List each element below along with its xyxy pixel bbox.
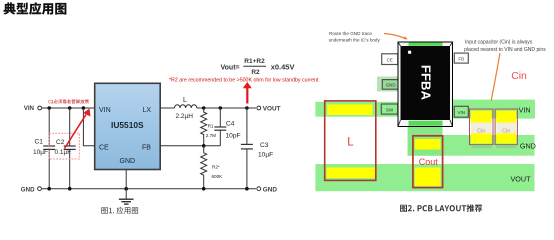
- node junction R2 bottom: [202, 187, 206, 191]
- svg-text:FB: FB: [142, 145, 151, 152]
- IC name FFBA: [419, 65, 434, 101]
- ground: [119, 199, 134, 204]
- pad FB: [454, 53, 468, 63]
- svg-text:VIN: VIN: [99, 107, 111, 114]
- svg-text:CE: CE: [387, 57, 393, 62]
- pin FB label: [142, 145, 151, 152]
- title 典型应用图: [4, 2, 67, 14]
- label L: [347, 136, 354, 148]
- annotation input capacitor: [464, 40, 546, 53]
- svg-text:VOUT: VOUT: [511, 174, 532, 183]
- trace GND bevel bottom: [409, 121, 443, 126]
- svg-text:0.1µF: 0.1µF: [55, 149, 72, 156]
- svg-text:C1: C1: [35, 139, 44, 146]
- op-amp U1 IU5510S body: [95, 83, 161, 169]
- svg-text:R2: R2: [251, 69, 260, 76]
- caption figure 2: [400, 204, 482, 212]
- annotation route GND trace: [329, 31, 381, 42]
- svg-text:GND: GND: [386, 83, 397, 88]
- inductor L pads: [327, 104, 376, 178]
- pad VIN: [454, 106, 468, 117]
- svg-text:FFBA: FFBA: [419, 65, 434, 101]
- resistor R2: [201, 146, 223, 189]
- pin GND label: [120, 158, 136, 165]
- svg-text:GND: GND: [21, 186, 35, 193]
- node junction C2 top: [68, 106, 72, 110]
- node junction FB: [202, 144, 206, 148]
- node junction C2 bottom: [68, 187, 72, 191]
- inductor L1: [175, 97, 197, 120]
- node VOUT label: [263, 106, 281, 113]
- svg-text:VOUT: VOUT: [263, 106, 281, 113]
- capacitor C4: [214, 108, 240, 146]
- formula Vout: [221, 58, 295, 76]
- svg-text:Vout=: Vout=: [221, 64, 240, 71]
- svg-text:10µF: 10µF: [33, 149, 48, 156]
- svg-text:SW: SW: [386, 107, 394, 112]
- capacitor Cout pads: [415, 139, 441, 186]
- node junction C1 top: [47, 106, 51, 110]
- svg-text:C4: C4: [226, 120, 235, 127]
- pin VIN label: [99, 107, 111, 114]
- net label GND: [520, 141, 536, 150]
- highlight box around Cout: [413, 136, 443, 188]
- svg-text:GND: GND: [263, 186, 278, 193]
- label Cout: [419, 157, 439, 167]
- svg-text:R1+R2: R1+R2: [244, 58, 265, 65]
- svg-text:600K: 600K: [212, 174, 224, 179]
- svg-text:L: L: [347, 136, 354, 148]
- svg-text:CE: CE: [99, 145, 109, 152]
- svg-text:VIN: VIN: [458, 110, 466, 115]
- wire VIN input: [42, 107, 95, 109]
- svg-text:Route the GND trace: Route the GND trace: [329, 31, 372, 36]
- svg-text:VIN: VIN: [519, 106, 531, 115]
- svg-text:GND: GND: [120, 158, 136, 165]
- svg-text:Cout: Cout: [419, 157, 439, 167]
- svg-text:R1: R1: [208, 123, 214, 128]
- pad CE: [382, 54, 398, 65]
- node VIN label: [24, 105, 35, 112]
- svg-text:10µF: 10µF: [258, 152, 273, 159]
- net label VOUT: [511, 174, 532, 183]
- pin CE label: [99, 145, 109, 152]
- wire LX output: [160, 107, 174, 109]
- svg-text:GND: GND: [520, 141, 536, 150]
- trace SW band left: [315, 102, 400, 117]
- annotation leader to IC top: [384, 34, 408, 40]
- IC U2 die body: [401, 46, 451, 120]
- wire CE to VIN link: [83, 108, 94, 146]
- capacitor Cin 2: [495, 109, 517, 145]
- svg-text:IU5510S: IU5510S: [111, 120, 144, 130]
- svg-text:2.7M: 2.7M: [206, 133, 216, 138]
- node GND label left: [21, 186, 35, 193]
- net label VIN: [519, 106, 531, 115]
- node junction C3 top: [245, 106, 249, 110]
- svg-text:L: L: [183, 97, 187, 104]
- note text R2 recommendation: [169, 78, 319, 84]
- svg-text:FB: FB: [458, 56, 464, 61]
- trace GND band: [408, 135, 535, 156]
- note text C2 placement: [49, 99, 89, 103]
- capacitor C2: [55, 108, 76, 189]
- terminal VIN: [38, 106, 42, 110]
- svg-text:Input capacitor (Cin) is alway: Input capacitor (Cin) is always: [465, 40, 533, 46]
- node junction C4 top: [219, 106, 223, 110]
- wire L to VOUT: [197, 107, 256, 109]
- pin 1 marker: [408, 51, 411, 54]
- capacitor C3: [241, 108, 273, 189]
- pad SW: [381, 104, 398, 114]
- highlight box around L: [325, 101, 376, 180]
- svg-text:VIN: VIN: [24, 105, 35, 112]
- svg-text:2.2µH: 2.2µH: [176, 113, 194, 120]
- svg-text:underneath the IC's body: underneath the IC's body: [329, 37, 381, 42]
- wire IC GND pin: [125, 170, 127, 199]
- annotation arrow to Vout formula: [243, 82, 252, 104]
- trace VIN band right: [448, 100, 535, 119]
- wire GND rail: [42, 188, 256, 190]
- trace GND under IC: [408, 118, 443, 156]
- label Cin callout: [511, 71, 527, 82]
- svg-text:*R2 are recommended to be >500: *R2 are recommended to be >500K ohm for …: [169, 78, 319, 84]
- svg-text:x0.45V: x0.45V: [271, 63, 295, 72]
- svg-text:10pF: 10pF: [226, 132, 241, 139]
- node junction C1 bottom: [47, 187, 51, 191]
- pin LX label: [143, 107, 152, 114]
- node junction GND pin: [124, 187, 128, 191]
- highlight box around C2: [49, 133, 79, 159]
- capacitor C1: [33, 108, 55, 189]
- caption figure 1: [101, 207, 138, 214]
- svg-text:LX: LX: [143, 107, 152, 114]
- annotation leader to Cin: [491, 53, 500, 101]
- node junction CE link: [82, 106, 86, 110]
- svg-text:Cin: Cin: [477, 128, 485, 134]
- terminal VOUT: [257, 106, 261, 110]
- pad GND with trace halo: [377, 77, 403, 92]
- svg-text:placed nearest to VIN and GND: placed nearest to VIN and GND pins: [464, 47, 546, 53]
- capacitor Cin 1: [470, 109, 494, 145]
- IC name IU5510S: [111, 120, 144, 130]
- svg-text:C2: C2: [56, 139, 65, 146]
- resistor R1: [201, 108, 216, 146]
- node junction C3 bottom: [245, 187, 249, 191]
- IC U2 FFBA package frame: [398, 42, 453, 127]
- terminal GND right: [257, 187, 261, 191]
- svg-text:Cin: Cin: [502, 128, 510, 134]
- trace VOUT band: [315, 164, 534, 191]
- svg-text:Cin: Cin: [511, 71, 527, 82]
- node GND label right: [263, 186, 278, 193]
- node junction R1 top: [202, 106, 206, 110]
- svg-text:C3: C3: [260, 142, 269, 149]
- trace GND bevel top: [409, 43, 443, 46]
- svg-text:R2*: R2*: [212, 164, 220, 169]
- terminal GND left: [38, 187, 42, 191]
- wire FB node: [160, 145, 220, 147]
- annotation arrow C2 to pin: [65, 109, 91, 149]
- capacitor Cin shadows: [472, 145, 517, 148]
